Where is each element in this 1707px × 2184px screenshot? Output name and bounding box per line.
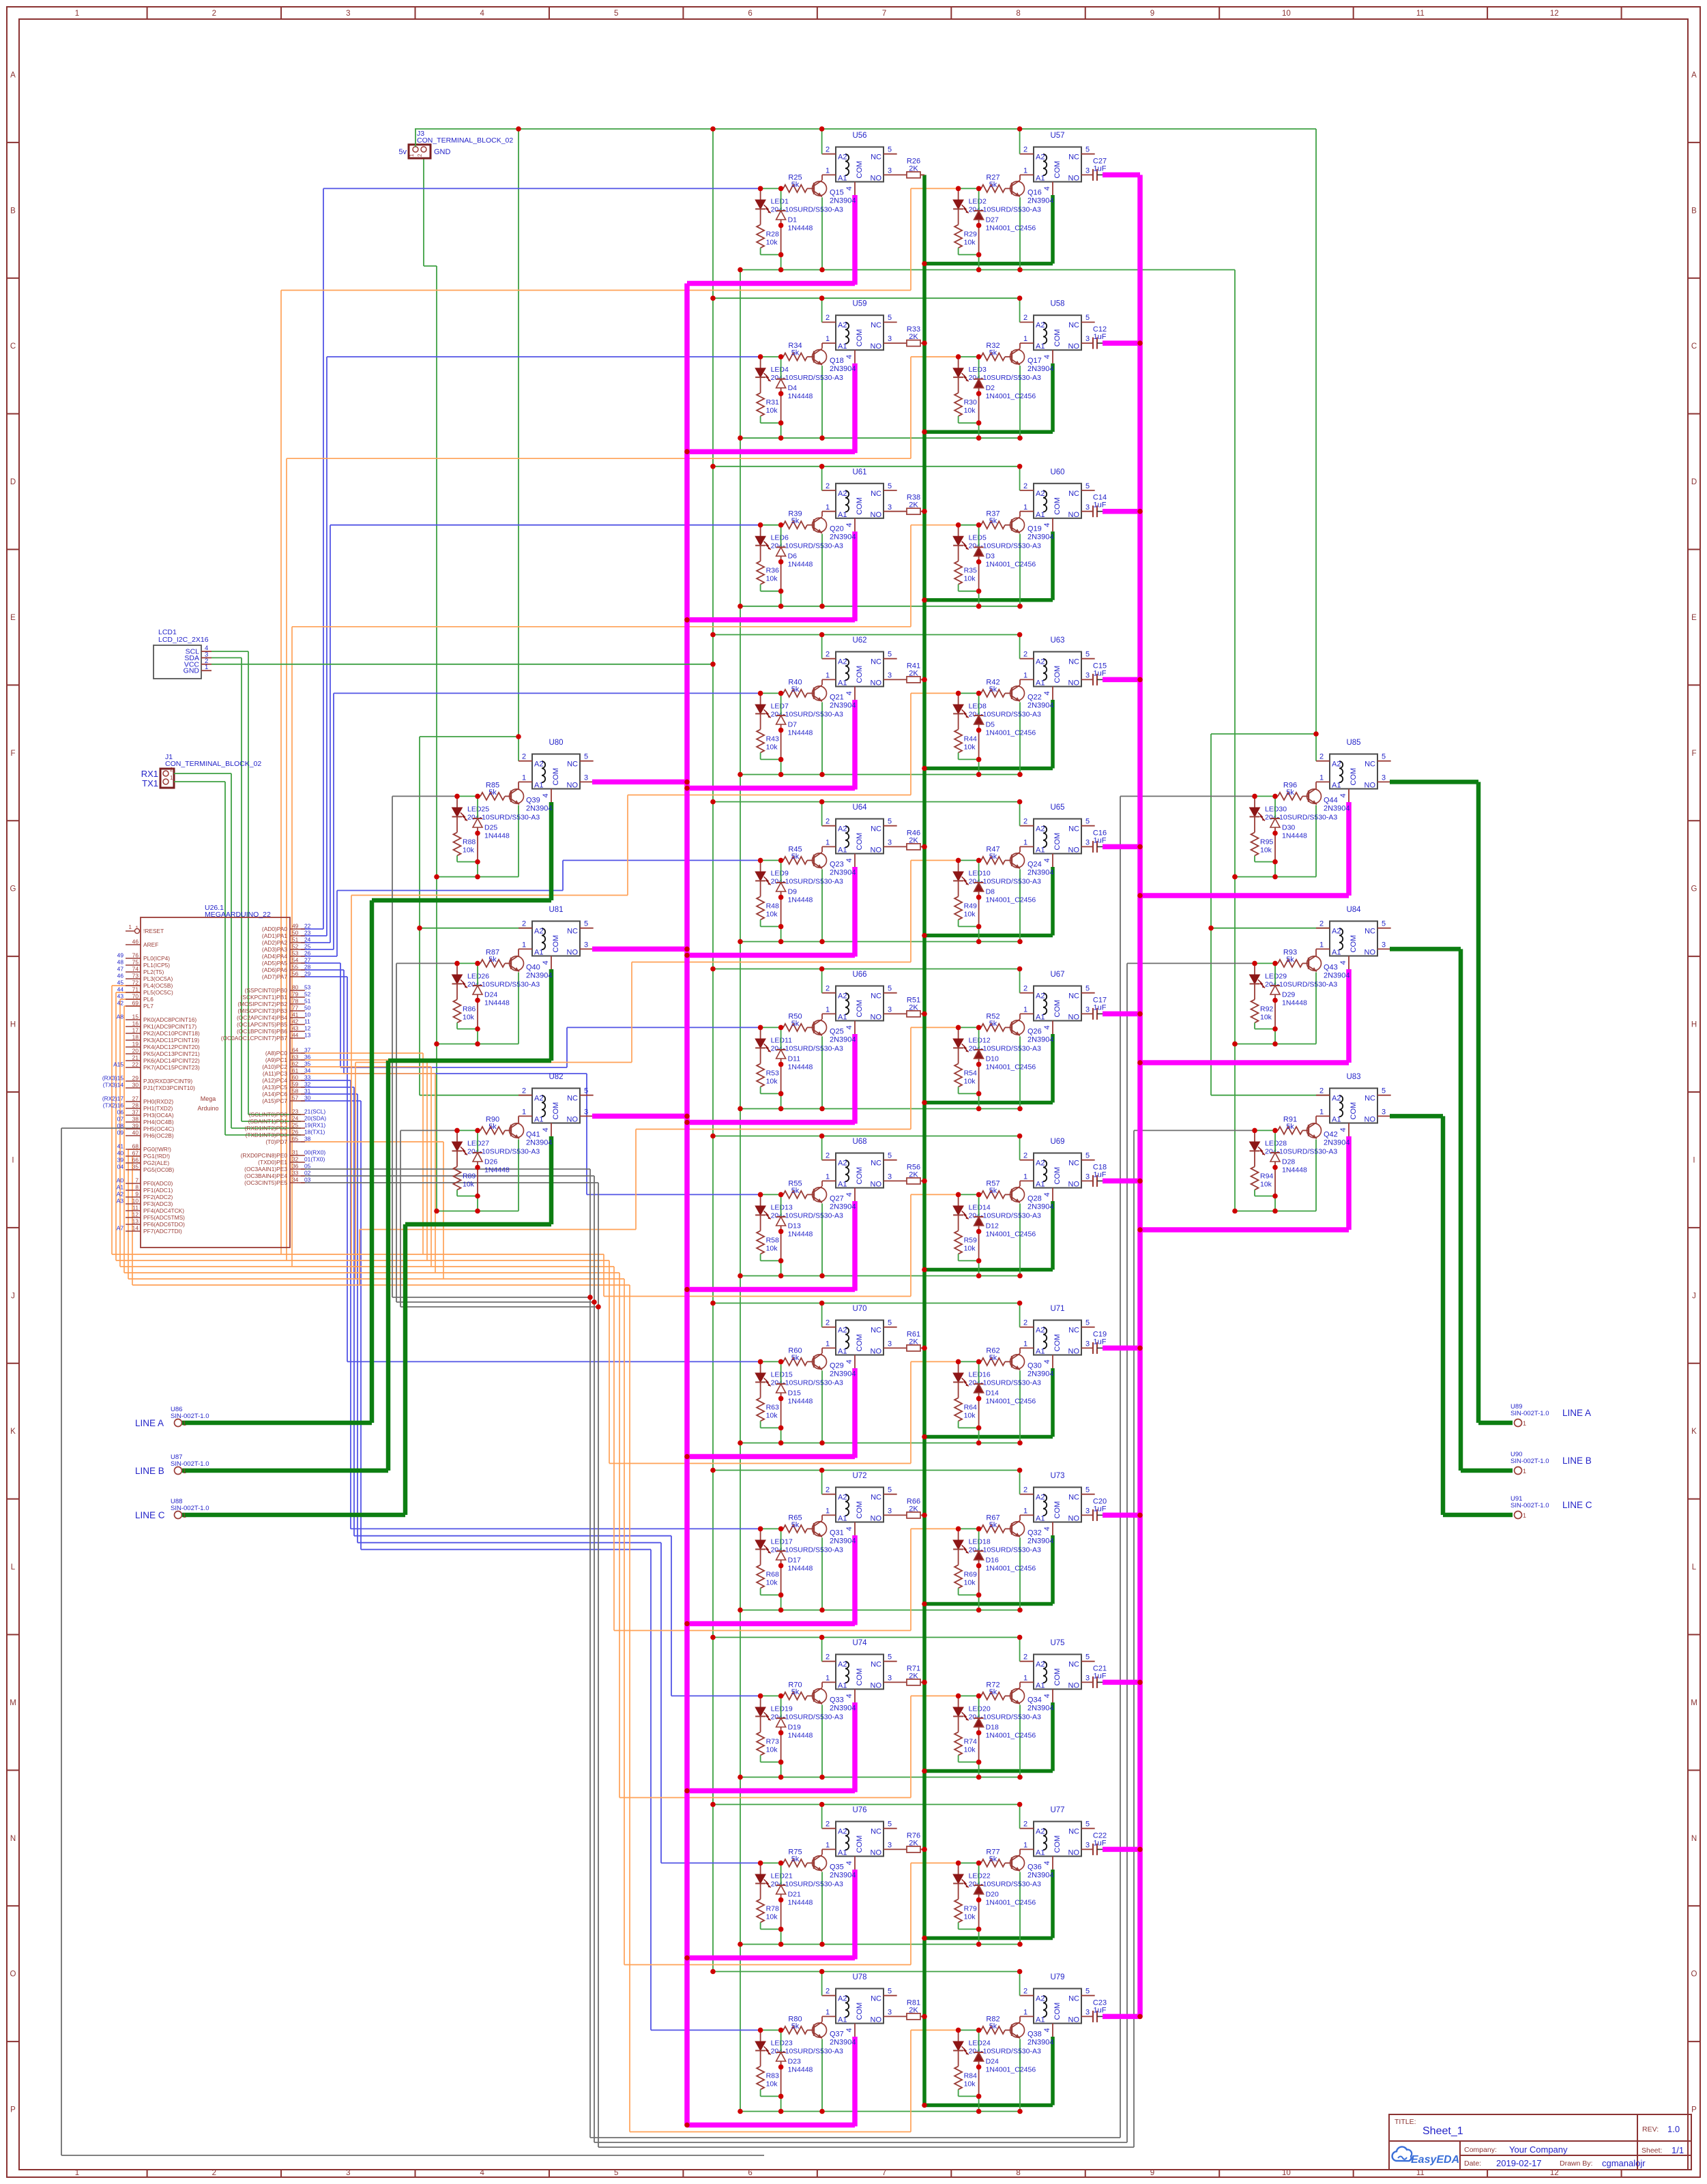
svg-text:Q39: Q39: [526, 796, 540, 804]
svg-text:3: 3: [1382, 941, 1386, 949]
wire grey mcu PH loop: [61, 1127, 141, 1129]
wire coil supply drop: [821, 1471, 823, 1494]
svg-text:3: 3: [888, 1507, 892, 1516]
svg-text:2K: 2K: [909, 669, 918, 677]
svg-text:5: 5: [888, 314, 892, 322]
svg-text:1/1: 1/1: [1672, 2145, 1684, 2155]
svg-text:10k: 10k: [964, 743, 976, 751]
svg-text:24: 24: [292, 1115, 299, 1122]
junction: [758, 858, 763, 864]
wire COM stub: [1052, 1021, 1053, 1035]
wire row 12 base drive (blue): [301, 1100, 361, 1102]
svg-text:8: 8: [135, 1184, 138, 1191]
svg-text:(TXD0)PE1: (TXD0)PE1: [258, 1159, 287, 1166]
svg-text:R92: R92: [1260, 1005, 1273, 1013]
relay U62: [826, 636, 892, 696]
junction: [684, 1788, 690, 1794]
svg-text:COM: COM: [856, 1501, 864, 1519]
relay U81: [522, 906, 588, 965]
svg-text:5k: 5k: [791, 1187, 800, 1195]
wire mcu orange fan: [134, 1169, 141, 1170]
junction: [922, 844, 927, 850]
wire coil pin stubs: [822, 825, 836, 827]
transistor Q22: [1010, 685, 1025, 701]
junction: [976, 420, 982, 426]
wire row 10 coil supply bus: [713, 1637, 1020, 1638]
svg-text:A: A: [10, 71, 16, 79]
junction: [976, 1775, 982, 1780]
svg-text:U77: U77: [1050, 1806, 1064, 1814]
wire row 5 cap output: [1103, 844, 1140, 850]
svg-text:1N4448: 1N4448: [788, 1397, 813, 1405]
junction: [976, 252, 982, 258]
wire row 9 base drive (blue): [301, 1080, 351, 1081]
junction: [684, 1454, 690, 1460]
junction: [758, 1861, 763, 1866]
wire row 11 right COM drop: [1051, 1870, 1055, 1938]
svg-text:2N3904: 2N3904: [830, 2038, 856, 2046]
svg-text:LED9: LED9: [771, 869, 789, 877]
svg-text:59: 59: [292, 1081, 299, 1088]
junction: [1272, 859, 1278, 865]
svg-text:NC: NC: [1068, 992, 1079, 1001]
wire coil pin stubs: [1020, 658, 1034, 660]
wire NO stub: [1377, 781, 1390, 782]
capacitor C23 1uF: [1081, 2016, 1093, 2017]
svg-text:(AD4)PA4: (AD4)PA4: [262, 953, 287, 960]
wire coil supply drop: [1019, 802, 1021, 826]
svg-text:10k: 10k: [964, 575, 976, 583]
wire emitter to ground: [1315, 1139, 1317, 1211]
svg-text:3: 3: [888, 672, 892, 680]
wire U82 coil feed: [420, 1095, 532, 1096]
wire row 4 coil supply bus: [713, 634, 1020, 636]
wire base junction: [959, 188, 979, 189]
svg-text:20(SDA): 20(SDA): [304, 1115, 326, 1122]
svg-text:Q42: Q42: [1324, 1130, 1338, 1138]
junction: [710, 966, 716, 972]
svg-text:Q23: Q23: [830, 860, 844, 868]
junction: [922, 597, 927, 603]
svg-text:R28: R28: [766, 230, 779, 238]
svg-text:1N4001_C2456: 1N4001_C2456: [986, 1564, 1036, 1572]
transistor Q41: [510, 1122, 524, 1138]
junction: [819, 1134, 825, 1139]
svg-text:N: N: [10, 1835, 16, 1843]
svg-text:(SCLINT0)PD0: (SCLINT0)PD0: [249, 1111, 288, 1118]
wire row 5 coil supply bus: [713, 801, 1020, 803]
svg-text:2K: 2K: [909, 164, 918, 173]
junction: [1017, 1802, 1023, 1807]
svg-text:(OC3AAIN1)PE3: (OC3AAIN1)PE3: [244, 1166, 287, 1172]
svg-text:10k: 10k: [766, 238, 778, 246]
svg-text:O: O: [10, 1971, 16, 1979]
svg-text:PG0(!WR!): PG0(!WR!): [143, 1146, 171, 1153]
wire row 2 ground bus: [740, 437, 1020, 439]
svg-text:Q15: Q15: [830, 188, 844, 196]
junction: [778, 420, 784, 426]
LED LED14: [953, 1194, 969, 1219]
svg-text:10k: 10k: [964, 1244, 976, 1252]
svg-text:5k: 5k: [791, 1521, 800, 1529]
svg-text:20: 20: [132, 1048, 139, 1054]
svg-text:53: 53: [292, 950, 299, 957]
svg-text:A1: A1: [1332, 782, 1341, 790]
svg-text:2: 2: [1319, 753, 1324, 761]
wire emitter to ground: [1315, 805, 1317, 876]
relay U80: [522, 739, 588, 798]
diode D30: [1274, 796, 1276, 818]
svg-text:Q33: Q33: [830, 1696, 844, 1704]
wire: [405, 1222, 551, 1227]
wire collector: [821, 679, 823, 685]
svg-text:Q26: Q26: [1027, 1027, 1042, 1035]
wire row 4 ground bus: [740, 774, 1020, 776]
svg-text:4: 4: [542, 1127, 550, 1132]
svg-text:63: 63: [292, 1054, 299, 1061]
wire base junction: [761, 525, 781, 526]
svg-text:NC: NC: [1365, 761, 1375, 769]
wire coil pin stubs: [822, 1160, 836, 1161]
LED LED27: [452, 1130, 468, 1155]
svg-text:10k: 10k: [964, 1745, 976, 1754]
svg-text:B: B: [1691, 207, 1697, 215]
junction: [778, 728, 784, 733]
svg-text:1: 1: [826, 1507, 830, 1516]
svg-text:D11: D11: [788, 1054, 801, 1063]
svg-text:2: 2: [1023, 1486, 1027, 1494]
terminal U86 SIN-002T-1.0 (LINE A left): [135, 1406, 209, 1428]
svg-text:R29: R29: [964, 230, 977, 238]
resistor R45 5k: [781, 859, 783, 861]
svg-text:A2: A2: [1332, 928, 1341, 936]
wire row 3 ground bus: [740, 606, 1020, 607]
svg-text:NC: NC: [1365, 1095, 1375, 1103]
wire emitter to ground: [821, 869, 823, 941]
svg-text:10k: 10k: [964, 910, 976, 918]
svg-text:37: 37: [132, 1109, 139, 1116]
junction: [976, 939, 982, 945]
svg-text:03: 03: [304, 1177, 311, 1183]
resistor R84 10k: [958, 2051, 959, 2067]
svg-text:4: 4: [845, 186, 853, 190]
svg-text:Q40: Q40: [526, 963, 540, 971]
wire COM stub: [1052, 182, 1053, 196]
svg-text:COM: COM: [856, 1000, 864, 1018]
junction: [778, 435, 784, 441]
wire collector: [518, 1116, 519, 1122]
wire COM stub: [854, 182, 856, 196]
svg-text:NC: NC: [1068, 1160, 1079, 1168]
junction: [956, 1359, 961, 1365]
svg-text:41: 41: [292, 1012, 299, 1018]
svg-text:A1: A1: [1036, 1014, 1045, 1022]
svg-text:4: 4: [1043, 1526, 1051, 1531]
svg-text:58: 58: [292, 1088, 299, 1095]
svg-text:NC: NC: [1068, 321, 1079, 329]
svg-text:PH6(OC2B): PH6(OC2B): [143, 1132, 174, 1139]
svg-text:11: 11: [1416, 10, 1425, 18]
svg-text:23: 23: [304, 930, 311, 936]
terminal U89 SIN-002T-1.0 (LINE A right): [1511, 1403, 1591, 1427]
junction: [758, 1025, 763, 1031]
svg-text:2K: 2K: [909, 2006, 918, 2014]
svg-text:LED25: LED25: [467, 805, 489, 813]
diode D10: [978, 1027, 980, 1050]
capacitor C14 1uF: [1081, 511, 1093, 512]
svg-text:(A13)PC5: (A13)PC5: [262, 1084, 287, 1091]
relay U59: [826, 300, 892, 359]
svg-text:2N3904: 2N3904: [526, 1138, 553, 1147]
svg-text:40: 40: [117, 1150, 124, 1157]
svg-text:U85: U85: [1346, 739, 1360, 747]
wire base junction: [761, 692, 781, 694]
svg-text:2: 2: [1023, 314, 1027, 322]
svg-text:4: 4: [1043, 1694, 1051, 1698]
svg-text:NC: NC: [1365, 928, 1375, 936]
junction: [922, 1012, 927, 1017]
svg-text:U71: U71: [1050, 1305, 1064, 1313]
svg-text:1: 1: [522, 1108, 526, 1117]
junction: [738, 772, 743, 778]
svg-text:28: 28: [304, 964, 311, 971]
wire row 3 COM link: [687, 617, 855, 623]
svg-text:A2: A2: [1036, 1494, 1045, 1502]
svg-text:A1: A1: [838, 511, 847, 519]
svg-text:5: 5: [888, 146, 892, 154]
svg-text:5: 5: [888, 651, 892, 659]
resistor R75 5k: [781, 1862, 783, 1863]
svg-text:4: 4: [845, 691, 853, 695]
wire NC stub: [884, 992, 897, 994]
svg-text:Sheet:: Sheet:: [1642, 2146, 1662, 2155]
svg-text:NO: NO: [871, 2016, 882, 2024]
junction: [778, 1229, 784, 1235]
wire collector: [1019, 343, 1021, 349]
junction: [1137, 1680, 1143, 1685]
svg-text:(OC1BPCINT6)PB6: (OC1BPCINT6)PB6: [237, 1028, 287, 1035]
wire U84 NO to line terminal (thick green): [1390, 947, 1461, 951]
LED LED28: [1250, 1130, 1266, 1155]
svg-text:D4: D4: [788, 384, 798, 392]
resistor R74 10k: [958, 1717, 959, 1732]
wire row 5 ground bus: [740, 941, 1020, 943]
wire COM stub: [854, 350, 856, 364]
diode D27: [978, 188, 980, 211]
resistor R55 5k: [781, 1194, 783, 1195]
svg-text:1N4448: 1N4448: [788, 728, 813, 737]
wire row 10 base drive (blue): [301, 1087, 354, 1088]
svg-text:COM: COM: [1349, 768, 1358, 786]
wire led/diode ground tie: [761, 1093, 781, 1094]
wire coil supply drop: [821, 298, 823, 322]
svg-text:1uF: 1uF: [1094, 669, 1107, 677]
junction: [922, 1847, 927, 1853]
diode D20: [978, 1863, 980, 1885]
wire row 11 COM link: [687, 1956, 855, 1961]
svg-text:COM: COM: [856, 1167, 864, 1185]
svg-text:5k: 5k: [791, 181, 800, 189]
wire NC stub: [1377, 761, 1391, 762]
svg-text:5: 5: [888, 482, 892, 490]
wire led/diode ground tie: [959, 2095, 979, 2097]
svg-text:COM: COM: [1053, 161, 1062, 179]
svg-text:NC: NC: [871, 1327, 881, 1335]
junction: [819, 939, 825, 945]
svg-text:O: O: [1691, 1971, 1697, 1979]
svg-text:Q20: Q20: [830, 525, 844, 533]
svg-text:R31: R31: [766, 398, 779, 407]
svg-text:COM: COM: [1053, 1167, 1062, 1185]
resistor R64 10k: [958, 1383, 959, 1398]
junction: [1017, 126, 1023, 132]
svg-text:NO: NO: [871, 1181, 882, 1189]
svg-text:NC: NC: [1068, 1327, 1079, 1335]
junction: [922, 1434, 927, 1440]
junction: [976, 2065, 982, 2070]
svg-text:10k: 10k: [766, 1913, 778, 1921]
junction: [976, 1396, 982, 1402]
wire NC stub: [884, 490, 897, 491]
junction: [778, 2109, 784, 2114]
svg-text:N: N: [1691, 1835, 1697, 1843]
wire row 8 COM link: [687, 1454, 855, 1460]
svg-text:U79: U79: [1050, 1973, 1064, 1981]
svg-text:NO: NO: [871, 1515, 882, 1523]
svg-text:E: E: [1691, 614, 1697, 622]
wire led/diode ground tie: [1255, 1196, 1275, 1197]
junction: [976, 728, 982, 733]
junction: [1017, 1635, 1023, 1640]
svg-text:25: 25: [304, 943, 311, 950]
svg-text:D28: D28: [1282, 1157, 1295, 1166]
svg-text:CON_TERMINAL_BLOCK_02: CON_TERMINAL_BLOCK_02: [165, 760, 261, 768]
resistor R28 10k: [760, 209, 761, 225]
resistor R88 10k: [456, 817, 458, 833]
svg-text:COM: COM: [1053, 1000, 1062, 1018]
svg-text:A1: A1: [838, 175, 847, 183]
svg-text:3: 3: [1085, 839, 1090, 847]
resistor R50 5k: [781, 1027, 783, 1028]
wire row 8 right base drive (orange): [609, 1463, 911, 1464]
wire mcu orange fan: [132, 1155, 141, 1157]
wire block ground rail: [1235, 876, 1316, 878]
wire block ground rail: [437, 1044, 519, 1045]
svg-text:4: 4: [845, 1526, 853, 1531]
resistor R52 5k: [979, 1027, 981, 1028]
wire led/diode ground tie: [959, 254, 979, 255]
wire U80 COM drop (thick green): [549, 802, 554, 900]
wire U82 NO link (magenta): [592, 1114, 687, 1119]
wire relay NO-COM bus (thick dark green): [922, 175, 927, 2105]
wire base junction: [457, 795, 478, 797]
svg-text:5: 5: [888, 1820, 892, 1829]
svg-text:NO: NO: [567, 949, 579, 957]
junction: [976, 757, 982, 763]
svg-text:F: F: [1691, 750, 1696, 758]
wire row 4 right base drive (orange): [351, 895, 628, 896]
wire NC stub: [1081, 1661, 1095, 1662]
svg-text:10k: 10k: [766, 407, 778, 415]
svg-text:1N4448: 1N4448: [484, 999, 510, 1007]
wire block ground rail: [1235, 1211, 1316, 1212]
junction: [738, 1441, 743, 1446]
connector J1 CON_TERMINAL_BLOCK_02: [141, 753, 262, 788]
svg-text:LED17: LED17: [771, 1537, 793, 1546]
wire led/diode ground tie: [457, 1029, 478, 1030]
wire U81 COM drop (thick green): [549, 969, 554, 1061]
svg-text:Q43: Q43: [1324, 963, 1338, 971]
wire NC stub: [884, 658, 897, 660]
svg-text:5: 5: [614, 2169, 618, 2177]
svg-text:1N4448: 1N4448: [484, 831, 510, 840]
svg-text:U82: U82: [549, 1073, 563, 1081]
junction: [956, 1192, 961, 1198]
svg-text:1N4448: 1N4448: [788, 2065, 813, 2074]
svg-text:(AD5)PA5: (AD5)PA5: [262, 960, 287, 966]
resistor R71 2K: [884, 1681, 907, 1683]
svg-text:U69: U69: [1050, 1138, 1064, 1146]
junction: [922, 933, 927, 939]
junction: [454, 1128, 460, 1134]
wire row 5 COM drop: [852, 867, 858, 957]
svg-text:NC: NC: [1068, 490, 1079, 498]
svg-text:PF3(ADC3): PF3(ADC3): [143, 1200, 173, 1207]
diode D5: [978, 693, 980, 715]
svg-text:6: 6: [748, 2169, 752, 2177]
LED LED4: [755, 357, 771, 381]
junction: [710, 1468, 716, 1473]
svg-text:Q36: Q36: [1027, 1863, 1042, 1871]
svg-text:SIN-002T-1.0: SIN-002T-1.0: [171, 1413, 209, 1420]
wire row 7 ground bus: [740, 1275, 1020, 1277]
svg-text:COM: COM: [552, 768, 560, 786]
svg-text:(A8)PC0: (A8)PC0: [265, 1050, 287, 1057]
wire base junction: [1255, 795, 1275, 797]
svg-text:4: 4: [845, 1359, 853, 1363]
wire coil pin stubs: [1020, 1494, 1034, 1495]
svg-text:R43: R43: [766, 735, 779, 743]
svg-text:5: 5: [888, 1988, 892, 1996]
wire row 1 right base drive (orange): [281, 290, 911, 291]
svg-text:PF0(ADC0): PF0(ADC0): [143, 1180, 173, 1187]
junction: [684, 947, 690, 952]
svg-text:1N4001_C2456: 1N4001_C2456: [986, 1063, 1036, 1071]
wire led/diode ground tie: [1255, 1029, 1275, 1030]
svg-text:Q38: Q38: [1027, 2030, 1042, 2038]
junction: [819, 1441, 825, 1446]
svg-text:COM: COM: [552, 1102, 560, 1120]
svg-text:2: 2: [826, 146, 830, 154]
svg-text:LED13: LED13: [771, 1203, 793, 1211]
svg-text:U59: U59: [852, 300, 866, 308]
svg-text:5k: 5k: [1286, 788, 1294, 797]
svg-text:3: 3: [888, 839, 892, 847]
junction: [778, 1730, 784, 1736]
LED LED17: [755, 1529, 771, 1553]
svg-text:10k: 10k: [766, 2080, 778, 2088]
wire block ground rail: [1235, 1044, 1316, 1045]
svg-text:COM: COM: [856, 2003, 864, 2020]
wire collector: [1019, 1682, 1021, 1687]
svg-text:39: 39: [117, 1157, 124, 1164]
svg-text:10k: 10k: [964, 1411, 976, 1419]
svg-text:LED3: LED3: [969, 366, 987, 374]
wire coil supply drop: [1019, 467, 1021, 490]
wire base junction: [959, 1361, 979, 1362]
junction: [922, 1267, 927, 1273]
junction: [819, 1775, 825, 1780]
